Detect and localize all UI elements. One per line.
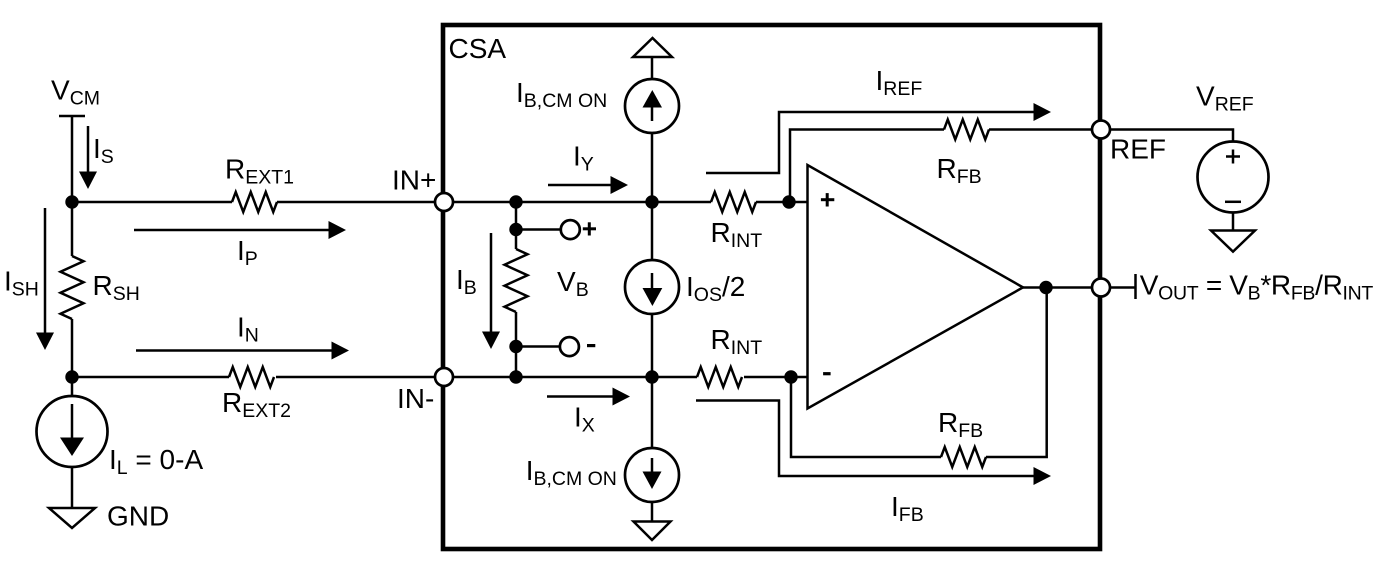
label IL = 0-A	[109, 444, 203, 479]
current arrow IP	[134, 221, 346, 239]
VREF plus marker	[1226, 150, 1240, 164]
CSA label	[449, 33, 507, 64]
wire node B to REXT2	[72, 376, 229, 379]
node B junction dot	[65, 370, 78, 383]
label ISH	[4, 266, 39, 301]
minus sign VB	[587, 344, 595, 347]
current arrow IX	[547, 388, 630, 406]
resistor RFB bottom	[941, 447, 986, 467]
node C junction dot	[645, 195, 658, 208]
VREF minus marker	[1225, 201, 1241, 204]
node D junction dot	[645, 370, 658, 383]
svg-text:REF: REF	[1110, 134, 1166, 165]
wire VB branch upper	[515, 202, 518, 249]
current source IB,CM ON top	[625, 79, 679, 133]
wire REF to VREF source	[1110, 130, 1233, 143]
svg-text:IN+: IN+	[392, 165, 436, 196]
wire VREF to ground	[1232, 213, 1235, 231]
label REF	[1110, 134, 1166, 165]
current source IL	[37, 377, 108, 467]
wire minus node down to RFB bottom	[791, 377, 941, 457]
resistor RSH	[61, 256, 84, 319]
wire minus tap	[516, 345, 561, 348]
wire REXT2 to IN-	[276, 376, 437, 379]
wire RSH to node B	[71, 319, 74, 377]
label IOS/2	[686, 271, 745, 306]
power symbol top	[633, 38, 672, 57]
label IB,CM ON bottom	[526, 455, 617, 490]
current arrow IREF	[706, 103, 1051, 173]
label VREF	[1196, 81, 1254, 116]
wire IN- rail inside CSA	[453, 376, 697, 379]
terminal IN-	[435, 368, 453, 386]
op-amp minus marker	[823, 372, 831, 375]
resistor REXT2	[229, 367, 274, 387]
label IFB	[891, 491, 924, 526]
label IB	[456, 264, 477, 299]
label IN-	[397, 383, 434, 414]
wire VOUT stub	[1110, 286, 1135, 289]
wire IBCM bottom to ground symbol	[651, 502, 654, 521]
resistor REXT1	[232, 192, 277, 212]
svg-text:CSA: CSA	[449, 33, 507, 64]
current arrow IY	[548, 176, 628, 194]
resistor RINT bottom	[697, 367, 742, 387]
label IP	[237, 235, 258, 270]
node VB plus tap dot	[509, 223, 522, 236]
resistor RINT top	[711, 192, 756, 212]
label VCM	[51, 75, 100, 110]
wire REXT1 to IN+	[277, 201, 437, 204]
wire node A to RSH	[71, 202, 74, 256]
wire RFB top to REF	[989, 128, 1096, 131]
op-amp plus marker	[821, 193, 834, 206]
terminal VB plus	[561, 220, 580, 239]
label VB	[557, 266, 589, 301]
wire VB lower	[515, 312, 518, 377]
current arrow IFB	[696, 401, 1051, 486]
wire VCM to node A	[71, 116, 74, 202]
current arrow IS	[79, 126, 97, 189]
wire power to IBCM top	[651, 57, 654, 79]
current arrow ISH	[36, 208, 54, 350]
CSA box	[443, 25, 1100, 549]
terminal VOUT	[1092, 279, 1110, 297]
label RINT bottom	[711, 324, 763, 359]
label RFB top	[937, 153, 982, 188]
terminal IN+	[435, 193, 453, 211]
ground VREF	[1211, 231, 1255, 252]
node VCM terminal bar	[59, 115, 85, 118]
label REXT1	[225, 154, 294, 189]
node VB top junction dot	[509, 195, 522, 208]
label IB,CM ON top	[516, 77, 607, 112]
ground GND	[49, 508, 95, 528]
VOUT end bar	[1134, 274, 1137, 299]
resistor RFB top	[944, 120, 989, 140]
terminal VB minus	[560, 337, 579, 356]
label RSH	[93, 270, 140, 305]
label IS	[93, 133, 114, 168]
wire node A to REXT1	[72, 201, 232, 204]
wire IBCM top to node C	[651, 133, 654, 202]
label VOUT equation	[1140, 270, 1374, 305]
wire plus node up to REF rail	[790, 130, 944, 203]
resistor VB	[505, 249, 528, 312]
ground symbol CSA bottom	[634, 522, 671, 541]
wire RFB bottom to output	[986, 288, 1047, 458]
current arrow IN	[136, 342, 349, 360]
current arrow IB	[482, 233, 500, 349]
plus sign VB	[583, 222, 596, 235]
voltage source VREF	[1198, 142, 1269, 213]
wire RINT bottom to op-amp	[744, 376, 807, 379]
wire plus tap	[516, 228, 561, 231]
wire IN+ rail inside CSA	[453, 201, 711, 204]
terminal REF	[1092, 121, 1110, 139]
current source IB,CM ON bottom	[625, 377, 679, 502]
svg-text:IN-: IN-	[397, 383, 434, 414]
label REXT2	[222, 387, 291, 422]
svg-text:GND: GND	[107, 501, 169, 532]
label IN+	[392, 165, 436, 196]
node plus input dot	[782, 195, 795, 208]
label GND	[107, 501, 169, 532]
wire RINT top to op-amp	[756, 201, 807, 204]
node VB minus tap dot	[509, 340, 522, 353]
label RINT top	[711, 217, 763, 252]
node A junction dot	[65, 195, 78, 208]
label RFB bottom	[938, 407, 983, 442]
node VB bottom junction dot	[509, 370, 522, 383]
label IY	[573, 141, 594, 176]
label IREF	[876, 65, 923, 100]
wire IL to ground	[71, 466, 74, 508]
wire op-amp output	[1023, 286, 1096, 289]
label IX	[574, 402, 595, 437]
current source IOS/2	[625, 202, 679, 377]
node minus input dot	[784, 370, 797, 383]
label IN	[237, 312, 259, 347]
node output junction dot	[1039, 281, 1052, 294]
op-amp U1	[808, 165, 1024, 409]
